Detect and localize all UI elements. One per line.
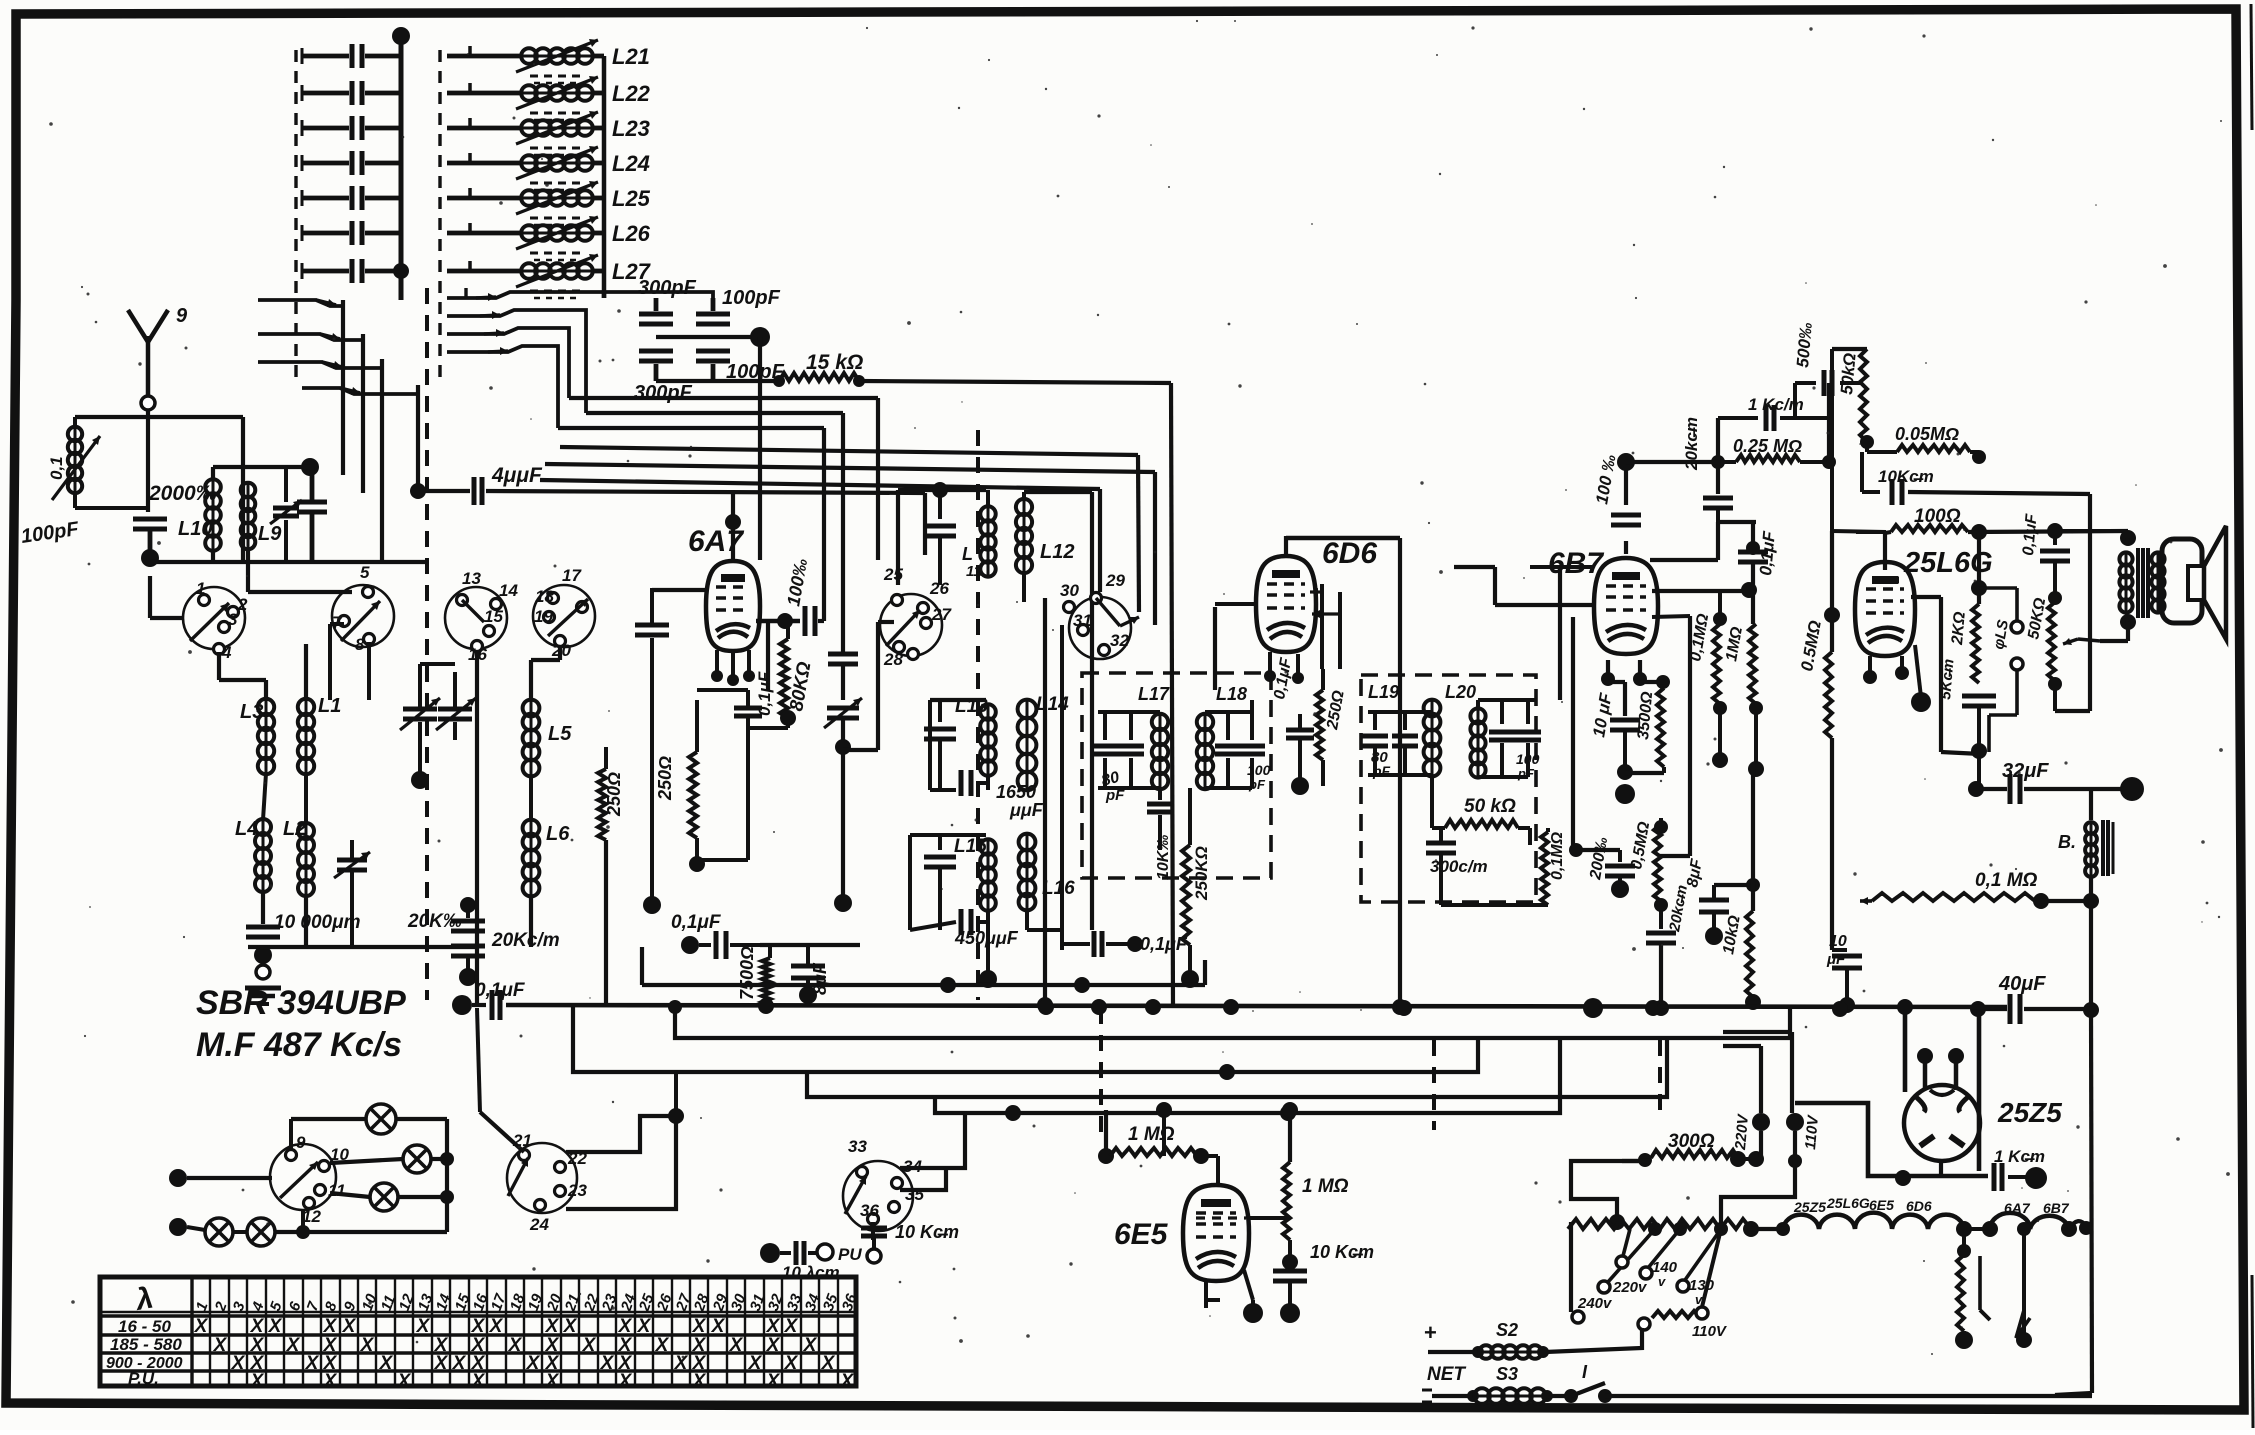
capacitor 40uF <box>1970 973 2091 1024</box>
svg-text:L5: L5 <box>548 723 572 745</box>
inductor L25 <box>447 181 651 225</box>
contact table grid <box>100 1277 856 1386</box>
svg-text:X: X <box>729 1335 744 1356</box>
svg-text:32: 32 <box>1110 631 1129 650</box>
wire antenna down <box>146 452 150 512</box>
gang dashed B <box>1099 1008 1103 1140</box>
trimmer bracket dashed column left <box>294 50 297 382</box>
svg-text:220v: 220v <box>1612 1279 1648 1296</box>
trimmer capacitor C3 <box>302 116 401 140</box>
inductor L22 <box>447 76 651 120</box>
tube 6E5 <box>1114 1185 1249 1281</box>
svg-text:300pF: 300pF <box>638 277 697 299</box>
svg-text:36: 36 <box>860 1201 879 1220</box>
capacitor 100pF antenna <box>20 518 167 567</box>
wire cathode bus mid <box>642 947 1205 993</box>
svg-text:1650: 1650 <box>996 782 1036 802</box>
wire 6A7 bias net <box>697 690 748 860</box>
svg-text:X: X <box>637 1316 652 1337</box>
IF1 primary cap b <box>1100 712 1144 804</box>
svg-text:X: X <box>600 1353 615 1374</box>
svg-text:33: 33 <box>848 1137 867 1156</box>
capacitor 5Kc/m <box>1937 658 1996 797</box>
capacitor tuning gang 1 <box>400 664 440 789</box>
terminal PU <box>760 1241 862 1282</box>
IF1 secondary cap b <box>1239 712 1271 792</box>
edge artifact right top <box>2251 4 2252 130</box>
svg-text:X: X <box>213 1335 228 1356</box>
title SBR 394UBP <box>196 984 406 1022</box>
bus wire y1072 <box>573 1007 1478 1080</box>
gang shaft dashed line B <box>976 430 980 1000</box>
IF1 secondary cap a <box>1215 712 1241 788</box>
wire b+ right <box>2055 494 2090 711</box>
IF2 secondary caps <box>1478 700 1541 781</box>
wire 6A7 plate up <box>818 428 824 621</box>
svg-text:X: X <box>618 1316 633 1337</box>
svg-text:18: 18 <box>535 587 554 606</box>
svg-text:X: X <box>489 1316 504 1337</box>
capacitor 10Kc/m PU <box>861 1222 959 1263</box>
svg-text:17: 17 <box>562 566 582 585</box>
trimmer capacitor C7 <box>302 259 401 283</box>
svg-text:240v: 240v <box>1577 1295 1613 1312</box>
svg-text:X: X <box>471 1371 486 1392</box>
svg-text:X: X <box>766 1316 781 1337</box>
resistor 0,1MOhm <box>1687 591 1728 768</box>
svg-text:4: 4 <box>221 643 232 662</box>
svg-text:100: 100 <box>1516 751 1540 767</box>
capacitor 32uF <box>1979 760 2144 804</box>
svg-text:1: 1 <box>196 579 205 598</box>
capacitor 8uF 6B7 <box>1684 857 1760 945</box>
svg-text:L19: L19 <box>1368 682 1399 702</box>
svg-text:μF: μF <box>1826 951 1846 968</box>
capacitor 10Kc/m <box>1862 452 2090 505</box>
trimmer capacitor C5 <box>302 186 401 210</box>
svg-text:X: X <box>840 1371 855 1392</box>
svg-text:SBR 394UBP: SBR 394UBP <box>196 984 406 1022</box>
tube 6D6 <box>1256 537 1377 652</box>
inductor L20 <box>1445 682 1536 778</box>
inductor L5 <box>523 660 573 776</box>
svg-text:10: 10 <box>1829 933 1847 950</box>
svg-text:21: 21 <box>512 1131 532 1150</box>
tube socket 33-36 <box>843 1137 924 1231</box>
wire B+ down <box>2055 901 2099 1395</box>
wire 4uuF line <box>410 464 925 555</box>
resistor 0,1MOhm IF2 <box>1441 828 1566 905</box>
dial lamp 3 <box>330 1183 447 1211</box>
svg-text:450μμF: 450μμF <box>954 928 1019 948</box>
svg-text:300c/m: 300c/m <box>1430 857 1488 876</box>
svg-text:S2: S2 <box>1496 1320 1518 1340</box>
svg-text:300Ω: 300Ω <box>1668 1131 1715 1152</box>
wire pilot tap <box>2016 1222 2032 1348</box>
svg-text:X: X <box>784 1316 799 1337</box>
wire 6D6 grid in <box>1215 602 1256 606</box>
voltage tap 240v <box>1571 1222 1613 1323</box>
resistor 80KOhm <box>748 621 816 728</box>
switch arm S1b <box>258 333 363 341</box>
svg-text:X: X <box>526 1353 541 1374</box>
svg-text:X: X <box>766 1371 781 1392</box>
svg-text:13: 13 <box>462 569 481 588</box>
inductor L2 <box>283 773 314 896</box>
svg-text:pF: pF <box>1517 766 1535 781</box>
bus wire y1115 <box>935 1040 1560 1121</box>
table row label 900-2000 <box>106 1355 183 1372</box>
inductor L3 <box>240 699 274 774</box>
svg-text:29: 29 <box>1105 571 1125 590</box>
svg-text:6B7: 6B7 <box>1548 547 1604 580</box>
resistor 250 ohm osc <box>598 747 624 1005</box>
svg-text:250Ω: 250Ω <box>655 756 675 801</box>
wire socket2124 bracket <box>566 1074 684 1209</box>
svg-text:9: 9 <box>176 305 188 327</box>
svg-text:L22: L22 <box>612 81 651 106</box>
gang shaft dashed line A <box>425 50 429 1000</box>
wire 6A7 plate down <box>766 621 770 690</box>
capacitor 20kc/m 6B7 <box>1646 884 1691 1016</box>
svg-text:PU: PU <box>838 1245 862 1264</box>
capacitor 0,1uF 6D6 <box>1271 656 1314 795</box>
capacitor 500pm <box>1793 321 1862 418</box>
IF2 primary caps <box>1362 712 1432 779</box>
tube socket 17-20 <box>533 566 595 660</box>
trimmer capacitor C1 <box>302 44 401 68</box>
table X marks <box>194 1316 855 1392</box>
table row label 185-580 <box>110 1335 182 1354</box>
svg-text:X: X <box>692 1316 707 1337</box>
capacitor 2000pm <box>148 458 327 562</box>
wire 6B7 1M bottom <box>1751 769 1755 885</box>
svg-text:X: X <box>563 1316 578 1337</box>
svg-text:19: 19 <box>534 607 553 626</box>
IF can 1 dashed box <box>1082 673 1271 878</box>
svg-text:L2: L2 <box>283 818 306 840</box>
wire socket3336 bracket <box>900 1113 965 1190</box>
wire stair y492 <box>540 480 1100 592</box>
capacitor 100pm 6A7 plate <box>756 337 815 636</box>
svg-text:X: X <box>323 1316 338 1337</box>
heater chain left <box>1751 1213 1972 1237</box>
wire 110V drop <box>1721 1161 1795 1229</box>
svg-text:5Kc̶m: 5Kc̶m <box>1937 658 1957 700</box>
trimmer capacitor C6 <box>302 221 401 245</box>
voltage tap center <box>1616 1229 1630 1268</box>
svg-text:X: X <box>711 1316 726 1337</box>
wire speaker top <box>2055 531 2128 538</box>
voltage tap 220v <box>1598 1229 1655 1296</box>
resistor 7500 ohm <box>737 945 770 1005</box>
capacitor 10uF <box>1589 682 1640 804</box>
svg-text:15: 15 <box>484 607 503 626</box>
svg-text:L21: L21 <box>612 44 650 69</box>
wire L9L10 top <box>213 467 310 480</box>
capacitor 8uF <box>760 945 860 1004</box>
svg-text:μμF: μμF <box>1009 800 1044 820</box>
resistor 1MOhm v <box>1282 1102 1349 1270</box>
svg-text:31: 31 <box>1073 611 1092 630</box>
svg-text:P.U.: P.U. <box>128 1369 159 1388</box>
tube socket 13-16 <box>445 569 518 664</box>
inductor L18 <box>1197 684 1252 789</box>
resistor heater shunt <box>1955 1229 1990 1349</box>
inductor L16 <box>1019 834 1076 950</box>
wire osc socket drop <box>843 622 894 750</box>
bus dots <box>758 998 1848 1018</box>
svg-text:X: X <box>803 1335 818 1356</box>
dial lamp 5 <box>247 1210 447 1246</box>
svg-text:100: 100 <box>1247 762 1271 778</box>
wire conv plate <box>1037 598 1053 1013</box>
inductor L6 <box>523 775 571 947</box>
wire 6D6 pins <box>1264 652 1304 684</box>
wire socketA pin4 to L3 <box>219 652 266 700</box>
coil bus vertical <box>602 56 607 298</box>
trimmer capacitor C4 <box>302 151 401 175</box>
wire input bus <box>150 560 428 564</box>
svg-text:X: X <box>674 1353 689 1374</box>
wire 25Z5 anodes <box>1897 999 1979 1171</box>
wire fan vertical v382 <box>380 359 384 562</box>
tube socket 21-24 <box>507 1131 587 1234</box>
switch arm S2a <box>447 288 713 301</box>
tube socket 5-8 <box>332 563 394 654</box>
field coil B <box>2058 789 2113 909</box>
svg-text:L26: L26 <box>612 221 651 246</box>
svg-text:0,1μF: 0,1μF <box>1756 530 1779 576</box>
svg-text:110V: 110V <box>1802 1113 1822 1150</box>
dial lamp 2 <box>330 1145 447 1173</box>
svg-text:L6: L6 <box>546 823 570 845</box>
wire L10 bottom <box>211 550 215 562</box>
wire lamp feed <box>169 1169 272 1187</box>
capacitor trimmer osc pad <box>824 698 862 912</box>
capacitor 100pm 6B7 top <box>1592 453 1641 554</box>
node AVC junction <box>656 327 770 347</box>
inductor L17 <box>1098 684 1173 850</box>
resistor 15kOhm <box>773 351 865 387</box>
svg-text:1 MΩ: 1 MΩ <box>1302 1176 1349 1197</box>
svg-text:25: 25 <box>883 565 903 584</box>
svg-text:X: X <box>766 1335 781 1356</box>
svg-text:0,1μF: 0,1μF <box>755 671 774 716</box>
wire cathode bus left <box>248 945 478 949</box>
svg-text:110V: 110V <box>1692 1323 1728 1340</box>
wire stair y428 <box>558 426 824 430</box>
wire 6B7 diode line <box>1652 582 1757 598</box>
resistor 250KOhm <box>1155 788 1211 988</box>
inductor L11 tank <box>898 482 996 585</box>
wire 6B7 pins <box>1601 660 1647 686</box>
wire fan vertical v363 <box>361 334 365 493</box>
heater chain right <box>1964 1213 2093 1237</box>
resistor 10kOhm <box>1720 885 1761 1010</box>
resistor 0,5MOhm output <box>1797 619 1832 950</box>
wire 6A7 top cap <box>725 491 741 561</box>
wire 25L6G pins <box>1863 645 1931 712</box>
capacitor 300pF upper <box>638 277 697 324</box>
wire trimmer-cap bus vertical <box>392 27 410 300</box>
inductor L23 <box>447 111 650 155</box>
svg-text:X: X <box>397 1371 412 1392</box>
capacitor 100pF lower <box>696 351 785 383</box>
switch bracket dashed column right <box>438 50 441 382</box>
svg-text:L20: L20 <box>1445 682 1476 702</box>
wire socketA left <box>150 576 183 618</box>
capacitor 20kcm grid <box>1682 417 1756 522</box>
capacitor 0,1uF 6B7 <box>1738 522 1779 624</box>
inductor L4 <box>235 773 271 892</box>
wire 6E5 pins <box>1206 1270 1263 1323</box>
inductor L21 <box>447 39 650 83</box>
resistor 300 ohm <box>1622 1131 1764 1167</box>
gang dashed C <box>1432 1040 1436 1130</box>
wire L18 to 6D6 <box>1215 607 1252 712</box>
table header lambda <box>132 1281 156 1317</box>
title MF 487 <box>196 1026 402 1064</box>
wire 25L6G grid wire <box>1911 597 1981 754</box>
svg-text:11: 11 <box>328 1181 346 1200</box>
resistor 1MOhm h <box>1110 1124 1218 1185</box>
wire S2 to selector <box>1545 1328 1642 1352</box>
table row label 16-50 <box>118 1317 171 1336</box>
inductor L27 <box>447 254 652 298</box>
bus wire y1097 <box>807 1040 1667 1097</box>
svg-text:X: X <box>784 1353 799 1374</box>
inductor L15 tank <box>910 835 1019 988</box>
svg-text:X: X <box>434 1353 449 1374</box>
inductor L14 <box>1018 694 1070 790</box>
svg-text:50kΩ: 50kΩ <box>1837 352 1860 395</box>
svg-text:NET: NET <box>1427 1364 1466 1385</box>
svg-text:27: 27 <box>931 605 952 624</box>
svg-text:10 Kc̶m: 10 Kc̶m <box>895 1222 959 1242</box>
wire 15k to IF <box>859 381 1173 1005</box>
capacitor 1kc/m <box>1718 395 1829 431</box>
speaker <box>2162 526 2226 639</box>
svg-text:L24: L24 <box>612 151 650 176</box>
wire 1k025 loop <box>1626 383 1829 494</box>
svg-text:6D6: 6D6 <box>1906 1198 1932 1214</box>
wire 6D6 plate taps <box>1310 584 1340 669</box>
inductor L24 <box>447 146 650 190</box>
switch arm S1c <box>258 361 382 369</box>
resistor 100 ohm <box>1832 506 2128 540</box>
speaker jack LS <box>1979 588 2023 752</box>
svg-text:3: 3 <box>228 610 238 629</box>
heater labels <box>1793 1195 2070 1216</box>
wire selector loop <box>1571 1161 1651 1230</box>
resistor 50kOhm top <box>1832 349 1874 449</box>
tube socket 9-12 <box>270 1133 349 1226</box>
wire lamp right bus <box>440 1119 454 1232</box>
svg-text:30: 30 <box>1060 581 1079 600</box>
tube 6A7 <box>688 525 760 651</box>
choke S3 <box>1422 1388 1566 1404</box>
svg-text:L: L <box>962 544 973 564</box>
capacitor 0,1uF IF1 <box>1062 931 1188 957</box>
resistor 0,05MOhm <box>1867 424 1986 464</box>
capacitor osc grid <box>828 560 858 700</box>
svg-text:X: X <box>545 1371 560 1392</box>
svg-text:0,1: 0,1 <box>47 456 66 480</box>
svg-text:L12: L12 <box>1040 541 1074 563</box>
svg-text:L13: L13 <box>955 696 988 717</box>
svg-text:6D6: 6D6 <box>1322 537 1377 570</box>
resistor 0,5MOhm 6B7 <box>1628 818 1668 912</box>
svg-text:14: 14 <box>499 581 518 600</box>
inductor antenna 0,1 <box>47 417 243 562</box>
svg-text:X: X <box>250 1316 265 1337</box>
inductor L10 <box>178 479 221 551</box>
resistor 1MOhm AF <box>1723 624 1764 777</box>
svg-text:X: X <box>250 1371 265 1392</box>
capacitor 10Kc/m 6E5 <box>1273 1242 1374 1323</box>
switch arm S1a <box>258 299 343 307</box>
svg-text:X: X <box>194 1316 209 1337</box>
wire stair y398 <box>569 398 878 560</box>
svg-text:220V: 220V <box>1732 1112 1752 1151</box>
svg-text:23: 23 <box>567 1181 587 1200</box>
capacitor 10uF output <box>1826 933 1862 1013</box>
svg-text:7500Ω: 7500Ω <box>737 946 757 1000</box>
capacitor osc pad <box>334 840 370 947</box>
wire socket21 up <box>477 1008 524 1152</box>
svg-text:25L6G: 25L6G <box>1826 1195 1870 1211</box>
svg-text:100pF: 100pF <box>722 287 781 309</box>
wire 6B7 grid drop <box>1652 616 1690 856</box>
wire 6E5 target <box>1196 1216 1290 1220</box>
inductor L1 <box>298 644 342 774</box>
capacitor 20K pm <box>407 897 485 932</box>
svg-text:15 kΩ: 15 kΩ <box>806 351 863 374</box>
svg-text:1 Kc̶m: 1 Kc̶m <box>1994 1147 2045 1166</box>
svg-text:35: 35 <box>905 1185 924 1204</box>
wire IF2 to 6B7 <box>1454 567 1593 700</box>
svg-text:0.05MΩ: 0.05MΩ <box>1895 424 1959 444</box>
wire fan vertical v418 <box>416 385 420 491</box>
antenna <box>128 305 188 452</box>
svg-text:8: 8 <box>355 635 365 654</box>
svg-text:X: X <box>286 1335 301 1356</box>
capacitor 200pm <box>1587 836 1635 898</box>
svg-text:L3: L3 <box>240 701 263 723</box>
resistor 50kOhm IF2 <box>1432 775 1530 845</box>
wire speaker bottom <box>2100 622 2128 641</box>
svg-text:50 kΩ: 50 kΩ <box>1464 796 1516 817</box>
svg-text:4μμF: 4μμF <box>491 464 543 487</box>
resistor 250 ohm 6A7 cathode <box>655 700 705 872</box>
switch arm S2d <box>447 346 558 428</box>
wire fan vertical v343 <box>341 300 345 475</box>
svg-text:S3: S3 <box>1496 1364 1518 1384</box>
wire stair y455 <box>560 447 1139 612</box>
wire 6B7 plate out <box>1650 522 1718 560</box>
tube 25L6G <box>1855 547 1993 656</box>
svg-text:X: X <box>821 1353 836 1374</box>
terminal 220V <box>1723 1046 1770 1159</box>
IF1 primary cap a <box>1092 712 1160 788</box>
ground <box>245 988 281 1004</box>
capacitor 300c/m <box>1426 828 1488 905</box>
svg-text:L4: L4 <box>235 818 258 840</box>
svg-text:24: 24 <box>529 1215 549 1234</box>
svg-text:X: X <box>268 1316 283 1337</box>
svg-text:1 MΩ: 1 MΩ <box>1128 1124 1175 1145</box>
